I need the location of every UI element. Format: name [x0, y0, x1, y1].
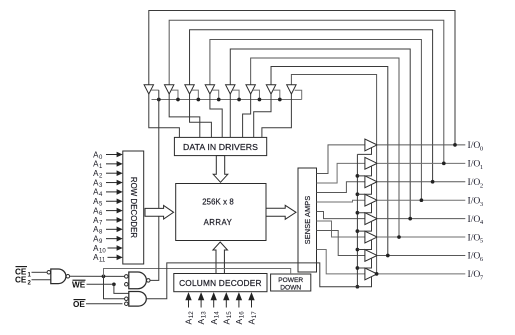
wire data-in 5 to drivers	[243, 94, 251, 137]
label I/O0	[468, 140, 484, 152]
enable stub to buffer OUT5	[356, 240, 372, 252]
node I/O3 junction	[420, 198, 424, 202]
wire WE branch to U3	[112, 282, 129, 293]
block ROW DECODER	[123, 151, 144, 264]
block POWER DOWN	[271, 274, 311, 292]
svg-text:DOWN: DOWN	[280, 285, 301, 292]
wire I/O6 line	[377, 254, 465, 256]
svg-text:DATA IN DRIVERS: DATA IN DRIVERS	[183, 142, 258, 152]
svg-text:15: 15	[226, 311, 233, 318]
svg-text:I/O: I/O	[468, 177, 481, 188]
enable stub to buffer IN5	[253, 90, 261, 101]
wire I/O2 feedback (top bundle)	[190, 30, 433, 182]
address input A13	[196, 292, 208, 324]
gate U2 write AND	[125, 272, 151, 289]
wire data-in 6 to drivers	[254, 94, 271, 137]
input data buffer triangle IN4	[226, 85, 235, 94]
svg-text:OE: OE	[73, 300, 85, 309]
wire sense amp output 7	[317, 250, 365, 274]
wire I/O6 feedback (top bundle)	[271, 67, 388, 256]
wire I/O0 feedback (top bundle)	[149, 11, 455, 145]
wire data-in 0 to drivers	[149, 94, 180, 137]
wire I/O4 feedback (top bundle)	[230, 49, 410, 219]
wire data-in 7 to drivers	[262, 94, 291, 137]
svg-text:A: A	[234, 319, 244, 325]
block COLUMN DECODER	[174, 274, 267, 292]
label I/O2	[468, 177, 484, 189]
enable stub to buffer IN3	[212, 90, 220, 101]
wire sense amp output 5	[317, 221, 365, 237]
node I/O1 junction	[442, 161, 446, 165]
address input A2	[93, 169, 123, 180]
enable stub to buffer OUT1	[356, 166, 372, 178]
svg-text:SENSE AMPS: SENSE AMPS	[303, 196, 312, 245]
wire sense amp output 6	[317, 231, 365, 256]
wire I/O0 line	[377, 144, 465, 146]
wire I/O3 line	[377, 199, 465, 201]
svg-text:A: A	[209, 319, 219, 325]
svg-text:I/O: I/O	[468, 159, 481, 170]
enable stub to buffer IN2	[192, 90, 200, 101]
write enable rail (node WE-int)	[152, 90, 302, 99]
wire sense amp output 3	[317, 200, 365, 202]
enable stub to buffer OUT7	[356, 276, 372, 288]
svg-text:14: 14	[213, 311, 220, 318]
svg-text:I/O: I/O	[468, 140, 481, 151]
block DATA IN DRIVERS	[174, 137, 266, 155]
svg-text:ARRAY: ARRAY	[204, 218, 233, 227]
input data buffer triangle IN2	[185, 85, 194, 94]
enable stub to buffer IN1	[171, 90, 179, 101]
input CE2 (active high)	[15, 276, 51, 287]
wire data-in 3 to drivers	[210, 94, 222, 137]
wire data-in 2 to drivers	[190, 94, 212, 137]
input data buffer triangle IN7	[287, 85, 296, 94]
node I/O2 junction	[431, 180, 435, 184]
address input A0	[93, 150, 123, 161]
address input A11	[93, 253, 123, 264]
svg-text:13: 13	[201, 311, 208, 318]
enable stub to buffer OUT3	[356, 203, 372, 215]
block arrow data in drivers to array	[213, 156, 228, 183]
label I/O5	[468, 232, 484, 244]
wire I/O5 feedback (top bundle)	[251, 58, 399, 237]
address input A10	[93, 244, 123, 255]
input data buffer triangle IN6	[266, 85, 275, 94]
address input A16	[234, 292, 246, 324]
label I/O1	[468, 159, 484, 171]
label I/O7	[468, 269, 484, 281]
svg-text:2: 2	[480, 182, 483, 189]
wire U3 output to output enable line	[146, 263, 357, 299]
wire U1-branch up to POWER DOWN	[104, 269, 291, 277]
address input A3	[93, 178, 123, 189]
enable stub to buffer OUT6	[356, 258, 372, 270]
wire I/O2 line	[377, 181, 465, 183]
address input A17	[247, 292, 259, 324]
enable stub to buffer IN4	[232, 90, 240, 101]
block arrow row decoder to array	[145, 206, 174, 220]
wire sense amp output 0	[317, 145, 365, 174]
svg-text:ROW DECODER: ROW DECODER	[129, 177, 138, 239]
svg-text:16: 16	[239, 311, 246, 318]
enable stub to buffer OUT4	[356, 221, 372, 233]
wire I/O1 feedback (top bundle)	[169, 20, 444, 163]
svg-text:12: 12	[188, 311, 195, 318]
input WE (active low)	[72, 280, 112, 289]
block 256K x 8 ARRAY	[176, 184, 266, 241]
wire U2 output to input buffer rail	[150, 90, 159, 280]
block arrow column decoder to array	[213, 242, 228, 274]
label I/O3	[468, 195, 484, 207]
gate U1 chip-enable AND	[47, 269, 70, 284]
wire sense amp output 4	[317, 212, 365, 219]
output buffer triangle OUT6	[365, 250, 377, 262]
svg-text:1: 1	[480, 164, 483, 171]
enable stub to buffer OUT2	[356, 184, 372, 196]
address input A4	[93, 188, 123, 199]
wire I/O7 feedback (top bundle)	[291, 75, 376, 274]
node I/O4 junction	[408, 217, 412, 221]
wire U1-branch down to U3	[104, 276, 125, 299]
address input A7	[93, 216, 123, 227]
output buffer triangle OUT1	[365, 157, 377, 169]
svg-text:I/O: I/O	[468, 251, 481, 262]
address input A8	[93, 225, 123, 236]
address input A6	[93, 206, 123, 217]
svg-text:11: 11	[99, 258, 106, 264]
node I/O0 junction	[453, 143, 457, 147]
wire I/O1 line	[377, 162, 465, 164]
svg-text:A: A	[247, 319, 257, 325]
enable stub to buffer IN6	[273, 90, 281, 101]
output buffer triangle OUT2	[365, 176, 377, 188]
wire sense amp output 1	[317, 163, 365, 183]
output buffer triangle OUT5	[365, 231, 377, 243]
output buffer triangle OUT0	[365, 139, 377, 151]
svg-text:I/O: I/O	[468, 232, 481, 243]
svg-text:A: A	[221, 319, 231, 325]
output buffer triangle OUT7	[365, 268, 377, 280]
svg-text:17: 17	[251, 311, 258, 318]
svg-text:256K x 8: 256K x 8	[202, 198, 234, 207]
output enable line (node OE-int)	[357, 147, 371, 286]
svg-text:I/O: I/O	[468, 214, 481, 225]
svg-text:I/O: I/O	[468, 269, 481, 280]
svg-text:I/O: I/O	[468, 195, 481, 206]
wire I/O7 line	[377, 273, 465, 275]
input CE1 (active low)	[15, 267, 47, 279]
output buffer triangle OUT3	[365, 194, 377, 206]
gate U3 read AND	[125, 292, 147, 307]
svg-text:CE: CE	[15, 276, 27, 285]
address input A12	[184, 292, 196, 324]
wire U1 output to U2/U3	[70, 274, 125, 278]
wire I/O3 feedback (top bundle)	[210, 40, 421, 201]
svg-text:10: 10	[99, 248, 106, 254]
node I/O7 junction	[375, 272, 379, 276]
address input A9	[93, 234, 123, 245]
label I/O6	[468, 251, 484, 263]
enable stub to buffer IN0	[151, 90, 161, 101]
address input A14	[209, 292, 221, 324]
node I/O6 junction	[386, 254, 390, 258]
input data buffer triangle IN3	[205, 85, 214, 94]
wire sense amp output 2	[317, 182, 365, 193]
wire I/O5 line	[377, 236, 465, 238]
label I/O4	[468, 214, 484, 226]
address input A15	[221, 292, 233, 324]
node I/O5 junction	[397, 235, 401, 239]
input OE (active low)	[73, 300, 123, 309]
address input A1	[93, 160, 123, 171]
block SENSE AMPS	[298, 168, 317, 272]
svg-text:A: A	[196, 319, 206, 325]
wire data-in 4 to drivers	[229, 94, 231, 137]
input data buffer triangle IN5	[246, 85, 255, 94]
input data buffer triangle IN0	[144, 85, 153, 94]
svg-text:COLUMN DECODER: COLUMN DECODER	[179, 278, 262, 288]
svg-text:POWER: POWER	[278, 277, 303, 284]
input data buffer triangle IN1	[164, 85, 173, 94]
svg-text:WE: WE	[72, 281, 86, 290]
address input A5	[93, 197, 123, 208]
wire I/O4 line	[377, 218, 465, 220]
output buffer triangle OUT4	[365, 213, 377, 225]
wire data-in 1 to drivers	[169, 94, 200, 137]
svg-text:A: A	[184, 319, 194, 325]
block arrow array to sense amps	[266, 205, 296, 219]
